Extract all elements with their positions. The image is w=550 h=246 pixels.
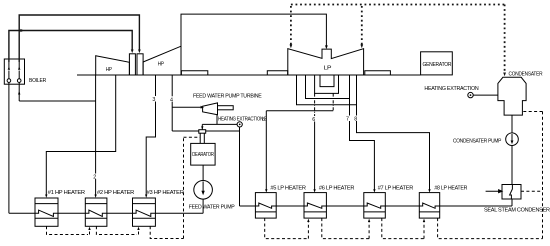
- wire extraction 8: [357, 105, 430, 190]
- arrow main steam A into HP inlet: [131, 50, 134, 54]
- wire condenser to condensate pump: [511, 115, 513, 133]
- svg-text:#2 HP HEATER: #2 HP HEATER: [97, 190, 134, 196]
- arrow into LP inlet: [325, 45, 328, 49]
- dashed drain heater2 to heater3: [96, 226, 138, 234]
- dashed drain heater5 to heater6: [265, 218, 309, 239]
- node label 7: [346, 116, 351, 123]
- svg-text:CONDENSATER PUMP: CONDENSATER PUMP: [453, 139, 501, 145]
- wire extraction 1 (HP to heater 1): [46, 75, 115, 195]
- boiler: [4, 59, 24, 84]
- svg-text:2: 2: [93, 175, 96, 181]
- arrow into heater 5: [265, 189, 267, 192]
- LP exhaust hood U2: [315, 75, 339, 93]
- dashed drain heater6 to heater7: [322, 218, 369, 239]
- deaerator inlet fitting: [199, 130, 206, 134]
- arrow into heater 3: [145, 195, 147, 198]
- svg-text:BOILER: BOILER: [29, 78, 46, 84]
- arrow drain into heater 6 bottom: [307, 219, 309, 222]
- dotted exhaust duct LP left to condenser: [291, 5, 505, 72]
- FWP turbine shaft block: [218, 106, 234, 110]
- feed water pump turbine: [203, 103, 218, 115]
- svg-text:4: 4: [170, 97, 173, 103]
- turbine shaft line: [77, 74, 421, 76]
- deaerator: [191, 143, 215, 165]
- arrow into heater 2: [94, 195, 96, 198]
- node label 8: [354, 116, 359, 123]
- HP turbine right casing: [143, 46, 181, 75]
- dashed drain heater1 to heater2: [47, 226, 90, 234]
- wire extraction 3: [146, 75, 155, 195]
- LP exhaust hood U3: [306, 75, 350, 99]
- svg-text:LP: LP: [324, 66, 332, 72]
- HP turbine left casing: [96, 56, 130, 75]
- svg-text:#6 LP HEATER: #6 LP HEATER: [319, 185, 354, 191]
- feedwater line segments through HP heaters: [9, 212, 203, 214]
- arrow into heater 7: [373, 189, 375, 192]
- seal steam condenser: [502, 185, 521, 200]
- wire condensate riser to deaerator: [239, 127, 241, 206]
- wire feed water pump to feedwater line: [202, 199, 204, 213]
- heating extraction point right: [468, 92, 473, 97]
- arrow into deaerator: [201, 126, 203, 129]
- wire pump to seal steam condenser: [511, 146, 513, 185]
- LP heater 5: [255, 193, 276, 219]
- HP inlet valve chest: [129, 54, 135, 75]
- svg-text:FEED WATER PUMP TURBINE: FEED WATER PUMP TURBINE: [193, 93, 262, 99]
- arrow drain into heater 3 bottom: [137, 227, 139, 230]
- dashed drain heater8 to condenser: [438, 112, 543, 239]
- wire FWPT exhaust to heating extraction point: [202, 115, 237, 130]
- feed water pump: [194, 181, 213, 200]
- dashed drain heater7 to heater8: [382, 218, 424, 239]
- svg-text:CONDENSATER: CONDENSATER: [509, 71, 543, 77]
- wire extraction 4 (to deaerator and FWP turbine): [172, 75, 239, 131]
- arrow dotted duct into condenser: [503, 73, 506, 77]
- deaerator neck: [200, 133, 204, 143]
- LP exhaust hood U1 (innermost): [320, 75, 334, 87]
- LP turbine casing: [288, 49, 364, 75]
- arrow dotted duct into LP right: [360, 45, 363, 49]
- wire main steam lead B (boiler right tube to HP inlet): [19, 15, 139, 62]
- condenser: [498, 77, 526, 115]
- arrow into heater 1: [45, 195, 47, 198]
- condensate line segments through LP heaters: [240, 205, 420, 207]
- dashed drain heater3 to deaerator: [150, 137, 200, 238]
- arrow dotted duct into LP left: [290, 45, 293, 49]
- node label 3: [152, 96, 157, 103]
- node label 6: [312, 116, 317, 123]
- LP heater 6: [304, 193, 326, 219]
- node label 2: [93, 174, 98, 181]
- heating extraction point left: [237, 122, 242, 127]
- wire crossover HP to LP: [181, 14, 326, 46]
- wire main steam lead A (boiler left tube to HP inlet): [9, 31, 132, 63]
- HP heater 3: [133, 198, 156, 226]
- arrow into heater 8: [428, 189, 430, 192]
- svg-text:#3 HP HEATER: #3 HP HEATER: [147, 190, 184, 196]
- wire extraction 5: [332, 93, 334, 110]
- svg-text:#8 LP HEATER: #8 LP HEATER: [434, 185, 467, 191]
- arrow main steam B into HP inlet: [138, 50, 141, 54]
- wire feedwater riser to boiler: [8, 82, 10, 213]
- bearing pedestal right of LP: [365, 71, 391, 75]
- wire seal steam condenser to condensate line: [440, 199, 512, 206]
- svg-text:HEATING EXTRACTION: HEATING EXTRACTION: [424, 86, 478, 92]
- svg-text:FEED WATER PUMP: FEED WATER PUMP: [189, 205, 235, 211]
- LP heater 8: [419, 193, 439, 219]
- HP heater 1: [35, 198, 58, 226]
- svg-text:HP: HP: [158, 62, 164, 68]
- svg-text:#5 LP HEATER: #5 LP HEATER: [270, 185, 305, 191]
- svg-text:SEAL STEAM CONDENSER: SEAL STEAM CONDENSER: [484, 208, 550, 214]
- LP exhaust hood U4 (outermost): [297, 75, 357, 105]
- node label 4: [170, 96, 175, 103]
- bearing pedestal between HP and LP: [181, 71, 207, 75]
- wire cold reheat return (HP exhaust to boiler): [19, 75, 95, 101]
- svg-text:HP: HP: [106, 67, 112, 73]
- wire extraction 7: [350, 99, 375, 190]
- LP heater 7: [364, 193, 386, 219]
- arrow seal steam inlet: [486, 190, 502, 193]
- svg-text:#1 HP HEATER: #1 HP HEATER: [48, 190, 85, 196]
- bearing pedestal left of LP: [267, 71, 287, 75]
- svg-text:#7 LP HEATER: #7 LP HEATER: [378, 185, 413, 191]
- wire heating extraction to condenser: [473, 94, 498, 96]
- arrow into heater 6: [313, 189, 315, 192]
- node label 5: [262, 117, 265, 123]
- arrow flow right on steam lead A: [20, 29, 24, 32]
- svg-text:5: 5: [262, 117, 265, 123]
- arrow into FWP turbine: [201, 106, 204, 109]
- generator: [421, 52, 453, 75]
- wire extraction 2 (HP exhaust to heater 2): [95, 101, 97, 195]
- svg-text:3: 3: [152, 97, 155, 103]
- svg-text:DEARATOR: DEARATOR: [192, 152, 214, 158]
- arrow drain into heater 2 bottom: [88, 227, 90, 230]
- svg-text:HEATING EXTRACTION 5: HEATING EXTRACTION 5: [218, 117, 267, 123]
- arrow up into boiler reheat tube: [18, 91, 20, 95]
- svg-text:8: 8: [354, 117, 357, 123]
- arrow drain into heater 7 bottom: [368, 219, 370, 222]
- wire deaerator to feed water pump: [202, 165, 204, 181]
- condensate pump: [506, 133, 519, 146]
- HP heater 2: [85, 198, 107, 226]
- arrow drain into heater 8 bottom: [423, 219, 425, 222]
- wire extraction 6: [314, 93, 316, 116]
- svg-text:GENERATOR: GENERATOR: [423, 62, 452, 68]
- svg-text:6: 6: [312, 117, 315, 123]
- svg-text:7: 7: [346, 117, 349, 123]
